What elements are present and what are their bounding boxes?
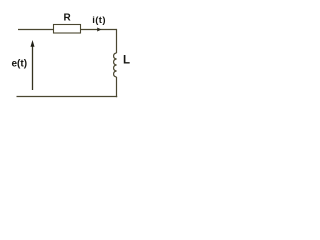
inductor L	[114, 53, 117, 77]
svg-text:L: L	[123, 54, 130, 66]
wire right vertical upper	[116, 29, 118, 53]
wire bottom horizontal	[17, 96, 118, 98]
svg-text:i(t): i(t)	[92, 15, 106, 26]
wire top-right horizontal	[81, 29, 117, 31]
svg-text:e(t): e(t)	[12, 59, 28, 70]
source arrowhead	[31, 40, 35, 47]
wire right vertical lower	[116, 77, 118, 97]
svg-text:R: R	[64, 13, 72, 24]
current arrow i(t)	[97, 28, 101, 32]
wire top-left horizontal	[18, 29, 54, 31]
resistor R	[54, 25, 81, 34]
source arrow shaft e(t)	[32, 46, 34, 91]
